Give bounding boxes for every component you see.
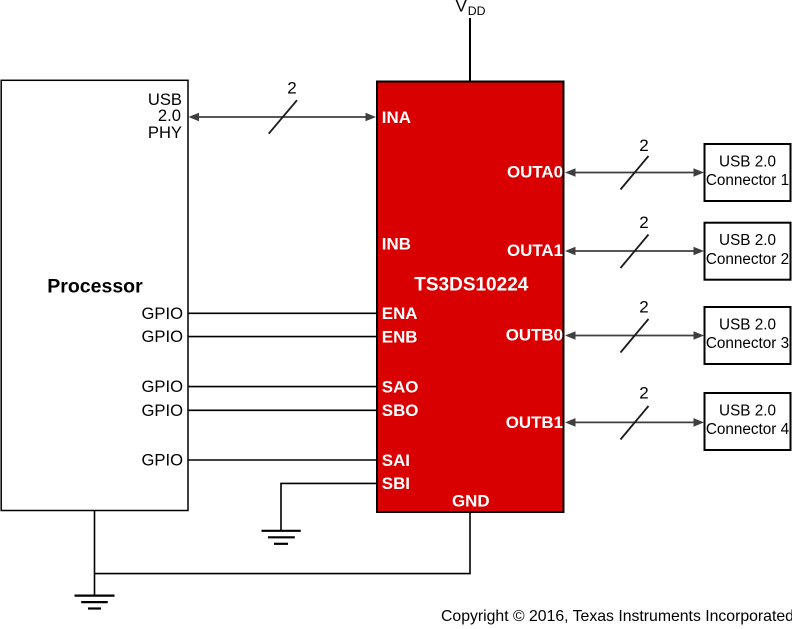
wire ENB — [188, 336, 377, 338]
svg-text:Connector 3: Connector 3 — [706, 335, 789, 352]
svg-text:SBI: SBI — [382, 474, 410, 493]
ground (main) — [75, 596, 115, 609]
svg-text:Processor: Processor — [47, 276, 143, 298]
bus width slash (OUTB1) — [621, 406, 649, 440]
svg-text:USB 2.0: USB 2.0 — [719, 154, 776, 171]
svg-text:Copyright © 2016, Texas Instru: Copyright © 2016, Texas Instruments Inco… — [441, 608, 792, 625]
bus OUTA0: U1 to connector 1 — [565, 168, 704, 177]
svg-text:SBO: SBO — [382, 401, 419, 420]
svg-text:INB: INB — [382, 234, 411, 253]
svg-text:OUTB1: OUTB1 — [506, 413, 563, 432]
svg-text:2: 2 — [639, 136, 648, 155]
svg-text:GPIO: GPIO — [142, 377, 184, 396]
svg-text:PHY: PHY — [148, 123, 182, 142]
bus width slash (OUTA1) — [621, 235, 649, 269]
processor block — [1, 80, 188, 510]
wire processor bottom to ground junction — [94, 511, 96, 596]
svg-text:GPIO: GPIO — [142, 327, 184, 346]
svg-text:OUTA0: OUTA0 — [507, 163, 563, 182]
svg-text:2: 2 — [639, 213, 648, 232]
svg-text:INA: INA — [382, 108, 411, 127]
svg-text:OUTB0: OUTB0 — [506, 326, 563, 345]
svg-text:USB 2.0: USB 2.0 — [719, 232, 776, 249]
wire VDD to U1 — [469, 18, 471, 81]
connector J3 USB 2.0 Connector 3 — [705, 307, 791, 364]
svg-text:2: 2 — [639, 384, 648, 403]
wire SAI — [188, 459, 377, 461]
IC U1 TS3DS10224 — [377, 82, 564, 513]
svg-text:GND: GND — [452, 492, 490, 511]
svg-text:DD: DD — [468, 4, 486, 18]
bus width slash (OUTA0) — [621, 156, 649, 190]
bus OUTB0: U1 to connector 3 — [565, 331, 704, 340]
svg-text:ENB: ENB — [382, 327, 418, 346]
svg-text:Connector 1: Connector 1 — [706, 172, 789, 189]
ground (SBI stub) — [262, 531, 301, 544]
bus OUTA1: U1 to connector 2 — [565, 247, 704, 256]
wire SBI to ground — [281, 483, 377, 530]
svg-text:Connector 2: Connector 2 — [706, 251, 789, 268]
connector J4 USB 2.0 Connector 4 — [705, 393, 791, 450]
svg-text:2: 2 — [639, 298, 648, 317]
connector J2 USB 2.0 Connector 2 — [705, 223, 791, 280]
pin label USB 2.0 PHY — [148, 90, 182, 142]
bus INA: processor to U1 — [189, 113, 377, 122]
svg-text:SAO: SAO — [382, 377, 419, 396]
wire SBO — [188, 409, 377, 411]
power VDD — [456, 0, 486, 18]
wire GND to ground junction — [95, 513, 471, 574]
svg-text:V: V — [456, 0, 468, 16]
connector J1 USB 2.0 Connector 1 — [705, 144, 791, 201]
bus width slash (OUTB0) — [621, 319, 649, 353]
svg-text:SAI: SAI — [382, 451, 410, 470]
svg-text:USB 2.0: USB 2.0 — [719, 403, 776, 420]
svg-text:GPIO: GPIO — [142, 304, 184, 323]
svg-text:USB 2.0: USB 2.0 — [719, 317, 776, 334]
svg-text:Connector 4: Connector 4 — [706, 421, 790, 438]
svg-text:GPIO: GPIO — [142, 451, 184, 470]
wire ENA — [188, 312, 377, 314]
svg-text:TS3DS10224: TS3DS10224 — [414, 275, 529, 296]
svg-text:GPIO: GPIO — [142, 401, 184, 420]
svg-text:OUTA1: OUTA1 — [507, 241, 563, 260]
svg-text:2: 2 — [287, 79, 296, 98]
svg-text:ENA: ENA — [382, 304, 418, 323]
bus width slash (INA) — [269, 100, 297, 134]
wire SAO — [188, 386, 377, 388]
bus OUTB1: U1 to connector 4 — [565, 418, 704, 427]
